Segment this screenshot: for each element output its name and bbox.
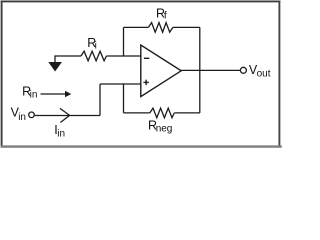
border frame left xyxy=(1,1,3,148)
svg-text:in: in xyxy=(30,90,38,101)
ground xyxy=(48,62,62,72)
wire: output from op-amp apex to Vout terminal xyxy=(181,69,240,71)
op-amp plus pin sign xyxy=(143,80,148,85)
arrow Rin (current direction) xyxy=(41,93,66,95)
arrow Iin chevron on Vin wire xyxy=(60,108,70,122)
svg-text:neg: neg xyxy=(156,124,173,135)
wire: Ri to op-amp inverting input xyxy=(106,55,140,57)
wire: feedback left vertical (node to top loop) xyxy=(123,27,125,56)
border frame right xyxy=(278,1,280,148)
resistor Rf zigzag xyxy=(148,23,173,33)
svg-text:out: out xyxy=(257,69,271,80)
terminal Vin xyxy=(29,112,35,118)
resistor Ri zigzag xyxy=(81,51,106,61)
wire: ground stub down from inverting wire xyxy=(55,56,81,62)
wire: riser from Vin wire up to noninverting input xyxy=(99,84,101,116)
wire: top feedback to Rf xyxy=(124,26,149,28)
border frame bottom xyxy=(1,145,282,147)
op-amp minus pin sign xyxy=(144,57,149,59)
resistor Rneg zigzag xyxy=(150,108,175,118)
svg-text:f: f xyxy=(164,11,167,22)
wire: bottom feedback left vertical from noninverting node xyxy=(123,84,125,113)
svg-text:in: in xyxy=(57,129,65,140)
wire: Vin input horizontal xyxy=(35,115,100,117)
border frame top xyxy=(1,0,281,2)
svg-text:i: i xyxy=(95,41,97,52)
wire: Rneg to right vertical xyxy=(174,112,200,114)
wire: right feedback vertical xyxy=(199,27,201,113)
op-amp U1 xyxy=(141,45,181,97)
wire: bottom loop to Rneg xyxy=(124,112,150,114)
wire: noninverting input horizontal xyxy=(100,83,141,85)
svg-text:in: in xyxy=(18,112,26,123)
terminal Vout xyxy=(240,67,246,73)
wire: Rf to right vertical xyxy=(173,26,200,28)
